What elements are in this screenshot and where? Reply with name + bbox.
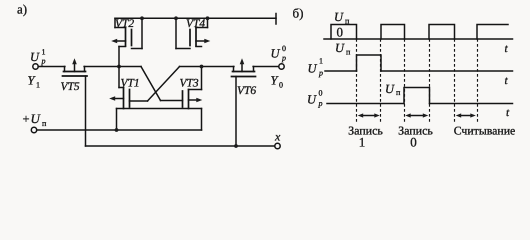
waveform Up1 pulse — [357, 55, 382, 71]
svg-text:п: п — [346, 48, 351, 57]
junction dot VT2 gate to rail — [140, 16, 144, 20]
node Y1 label — [28, 74, 41, 90]
node A junction dot (left cell node) — [117, 65, 121, 69]
node Up1 label — [30, 48, 46, 66]
svg-text:а): а) — [17, 2, 27, 17]
svg-text:x: x — [274, 130, 281, 144]
node x terminal — [275, 143, 280, 148]
label Up (top, above first waveform) — [334, 10, 350, 26]
interval arrow (read) — [456, 113, 476, 117]
label interval: Запись 1 — [348, 124, 383, 150]
svg-text:п: п — [42, 119, 47, 128]
svg-text:б): б) — [293, 5, 304, 20]
svg-text:0: 0 — [337, 25, 344, 40]
svg-text:p: p — [318, 99, 323, 108]
svg-text:0: 0 — [282, 44, 286, 53]
wire left bit line from VT5 to cross-coupling — [84, 66, 141, 68]
svg-text:0: 0 — [279, 81, 283, 90]
svg-text:U: U — [308, 62, 318, 76]
wire +Up supply line — [37, 129, 202, 131]
svg-text:1: 1 — [359, 135, 366, 150]
wire right bit line VT6 to Up0 terminal — [253, 66, 279, 68]
svg-text:U: U — [385, 82, 395, 96]
transistor VT3 (inverter, right) — [161, 67, 203, 131]
svg-text:Считывание: Считывание — [454, 124, 516, 138]
node Up1 terminal — [33, 64, 38, 69]
transistor VT5 (access transistor, left) — [61, 58, 88, 93]
svg-text:1: 1 — [42, 48, 46, 57]
node B junction dot (right cell node) — [200, 65, 204, 69]
waveform Up pulses — [331, 25, 357, 40]
svg-text:U: U — [334, 10, 344, 24]
wire VT5 gate lead down to word line — [85, 76, 87, 146]
svg-text:p: p — [41, 57, 46, 66]
svg-text:VT5: VT5 — [61, 81, 80, 93]
svg-text:VT6: VT6 — [237, 85, 256, 97]
wire cross-coupling diagonal A — [141, 67, 161, 101]
node +Up label — [23, 111, 48, 128]
svg-text:0: 0 — [410, 135, 417, 150]
svg-text:p: p — [318, 69, 323, 78]
label Up1 (second waveform) — [308, 57, 324, 78]
wire rail end tick — [275, 14, 277, 25]
interval arrow (write 0) — [405, 113, 428, 117]
svg-text:t: t — [505, 75, 509, 87]
junction dot VT4 gate to rail — [174, 16, 178, 20]
svg-text:Запись: Запись — [348, 124, 383, 138]
transistor VT4 (load, right) — [176, 18, 210, 49]
axis of waveform Up — [324, 38, 513, 40]
svg-text:0: 0 — [319, 89, 323, 98]
svg-text:U: U — [30, 50, 40, 64]
transistor VT1 (inverter, left) — [109, 67, 147, 131]
svg-text:1: 1 — [36, 81, 40, 90]
svg-text:VT3: VT3 — [180, 77, 199, 89]
node +Up supply terminal — [31, 127, 36, 132]
label Up (amplitude of third waveform pulse) — [385, 82, 401, 97]
svg-text:U: U — [31, 111, 42, 126]
waveform Up0 pulse — [404, 88, 430, 104]
label interval: Запись 0 — [398, 124, 433, 150]
svg-text:п: п — [396, 88, 401, 97]
wire cross-coupling diagonal B — [148, 67, 180, 102]
dashed timing boundaries — [356, 39, 358, 122]
svg-text:U: U — [335, 41, 345, 55]
axis of waveform Up0 — [327, 103, 404, 105]
node Up0 label — [271, 44, 287, 63]
svg-text:t: t — [506, 107, 510, 119]
junction dot VT1 source to supply line — [115, 128, 119, 132]
wire right bit line from cross to VT6 — [180, 66, 234, 68]
svg-text:+: + — [23, 112, 30, 126]
wire left bit line from Up1 terminal to VT5 — [38, 66, 65, 68]
label Up0 (third waveform) — [307, 89, 323, 109]
svg-text:t: t — [505, 43, 509, 55]
wire common source rail — [117, 108, 202, 110]
label Up (below first axis) — [335, 41, 351, 57]
junction dot VT4 drain to rail — [206, 16, 210, 20]
transistor VT6 (access transistor, right) — [232, 58, 257, 146]
wire word line x — [86, 145, 275, 147]
wire top supply rail — [115, 17, 276, 19]
node Y0 label — [271, 74, 284, 90]
interval arrow (write 1) — [358, 113, 380, 117]
svg-text:p: p — [281, 54, 286, 63]
svg-text:U: U — [307, 93, 317, 107]
svg-text:U: U — [271, 47, 281, 61]
node Up0 terminal — [279, 64, 284, 69]
axis of waveform Up1 — [325, 70, 357, 72]
svg-text:1: 1 — [319, 57, 323, 66]
transistor VT2 (load, left) — [111, 18, 142, 67]
junction dot VT6 gate to word line — [234, 144, 238, 148]
